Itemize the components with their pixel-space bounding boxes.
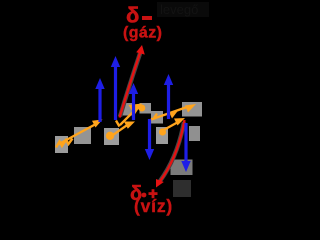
atom halo box C4 — [122, 103, 132, 116]
red arrow R1 to gas label — [120, 50, 142, 118]
orange dipole arrow O3 — [116, 104, 142, 127]
atom halo box C8 — [182, 102, 202, 117]
orange dipole arrow O1 — [56, 120, 103, 148]
atom halo box C6 — [151, 111, 163, 124]
atom halo box C3 — [104, 128, 119, 145]
blue dipole arrow B5 down — [181, 123, 190, 172]
atom halo box water — [173, 180, 191, 197]
red arrow R2 halo — [160, 122, 184, 181]
atom halo box C1 — [55, 136, 68, 153]
red arrow R1 halo — [120, 52, 141, 117]
atom halo box head group — [171, 160, 193, 176]
orange dipole arrow O4 — [138, 104, 196, 120]
blue dipole arrow B3 up — [164, 74, 173, 119]
atom halo box C5 — [140, 103, 152, 114]
blue dipole arrow B1 up — [95, 78, 104, 122]
svg-text:(gáz): (gáz) — [123, 25, 162, 42]
atom halo box C2 — [74, 127, 91, 144]
atom halo box C9 — [189, 126, 200, 141]
faint air label hint (top right) — [157, 2, 209, 17]
blue dipole arrow B6 up — [129, 83, 138, 120]
atom halo box C7 — [156, 127, 168, 144]
red arrow R2 to water label — [160, 120, 185, 182]
svg-text:(víz): (víz) — [134, 196, 173, 216]
blue dipole arrow B4 down — [145, 119, 154, 160]
svg-text:levegő: levegő — [160, 2, 198, 17]
orange dipole arrow O5 — [159, 118, 185, 136]
orange dipole arrow O2 — [106, 122, 135, 141]
blue dipole arrow B2 up — [111, 56, 120, 120]
